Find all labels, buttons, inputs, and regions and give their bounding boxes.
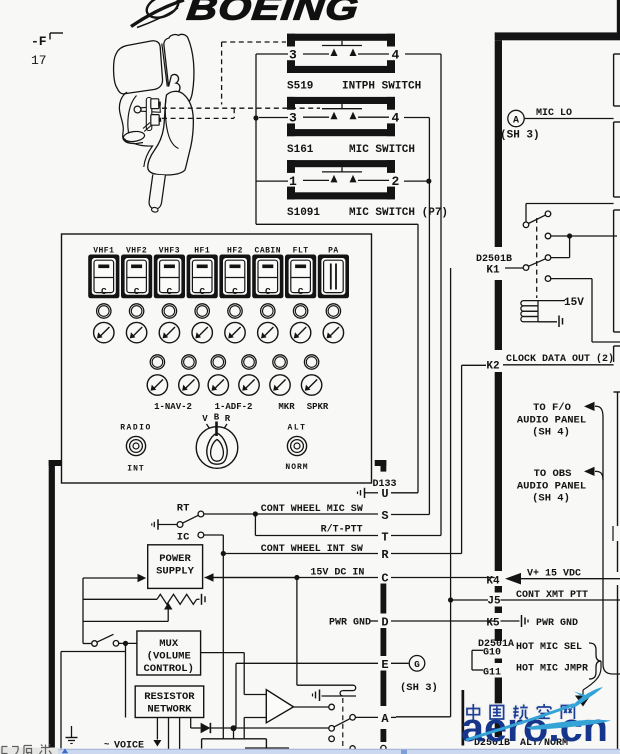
- svg-text:HF2: HF2: [227, 247, 243, 256]
- svg-text:HOT MIC JMPR: HOT MIC JMPR: [516, 664, 588, 675]
- svg-text:3: 3: [289, 48, 297, 63]
- svg-text:D2501B: D2501B: [476, 254, 512, 265]
- svg-text:MUX: MUX: [159, 638, 179, 650]
- svg-text:1-NAV-2: 1-NAV-2: [154, 402, 192, 412]
- svg-text:U: U: [381, 487, 388, 501]
- svg-text:B: B: [214, 413, 220, 423]
- svg-text:POWER: POWER: [159, 553, 191, 565]
- svg-text:S161: S161: [287, 144, 314, 156]
- svg-text:CONT WHEEL MIC SW: CONT WHEEL MIC SW: [261, 504, 363, 515]
- svg-text:A: A: [513, 116, 519, 127]
- svg-text:NETWORK: NETWORK: [147, 704, 192, 716]
- svg-text:2: 2: [392, 174, 400, 189]
- svg-text:RESISTOR: RESISTOR: [144, 691, 195, 703]
- svg-text:IC: IC: [177, 532, 190, 544]
- svg-text:S519: S519: [287, 81, 313, 93]
- svg-text:C: C: [381, 572, 388, 586]
- svg-text:K2: K2: [486, 361, 499, 373]
- svg-text:G: G: [414, 659, 420, 670]
- svg-text:CABIN: CABIN: [255, 247, 282, 256]
- svg-text:(SH 3): (SH 3): [400, 682, 438, 694]
- svg-text:J5: J5: [487, 596, 501, 608]
- svg-text:A: A: [381, 712, 389, 726]
- svg-text:K5: K5: [486, 618, 500, 630]
- svg-text:(SH 3): (SH 3): [500, 130, 540, 142]
- svg-text:CONT WHEEL INT SW: CONT WHEEL INT SW: [261, 544, 363, 555]
- svg-text:NORM: NORM: [285, 463, 308, 472]
- svg-text:(VOLUME: (VOLUME: [147, 651, 191, 663]
- svg-text:4: 4: [392, 48, 400, 63]
- svg-text:VHF2: VHF2: [126, 247, 147, 256]
- svg-text:MIC SWITCH (P7): MIC SWITCH (P7): [349, 207, 448, 219]
- svg-text:RT: RT: [177, 503, 190, 515]
- svg-text:D: D: [381, 616, 388, 630]
- svg-text:CONT XMT PTT: CONT XMT PTT: [516, 590, 588, 601]
- svg-text:3: 3: [289, 111, 297, 126]
- svg-text:V+ 15 VDC: V+ 15 VDC: [527, 569, 581, 580]
- svg-text:TO OBS: TO OBS: [534, 468, 572, 480]
- svg-text:1-ADF-2: 1-ADF-2: [215, 402, 253, 412]
- svg-text:HOT MIC SEL: HOT MIC SEL: [516, 642, 582, 653]
- svg-text:E: E: [381, 658, 388, 672]
- svg-text:R/T-PTT: R/T-PTT: [321, 524, 363, 536]
- svg-text:R: R: [381, 548, 389, 562]
- svg-text:MKR: MKR: [278, 402, 295, 412]
- svg-text:1: 1: [289, 174, 297, 189]
- svg-text:15V: 15V: [564, 297, 584, 309]
- svg-text:SPKR: SPKR: [307, 402, 329, 412]
- svg-text:S1091: S1091: [287, 207, 320, 219]
- svg-text:HF1: HF1: [194, 247, 210, 256]
- svg-text:ALT: ALT: [288, 424, 307, 433]
- svg-text:C: C: [199, 286, 205, 297]
- svg-text:(SH 4): (SH 4): [532, 493, 570, 505]
- svg-text:15V DC IN: 15V DC IN: [310, 568, 364, 579]
- svg-text:AUDIO PANEL: AUDIO PANEL: [517, 415, 586, 427]
- svg-text:FLT: FLT: [293, 247, 309, 256]
- svg-text:G11: G11: [483, 668, 501, 679]
- svg-text:MIC SWITCH: MIC SWITCH: [349, 144, 415, 156]
- svg-text:INT: INT: [127, 465, 144, 474]
- svg-text:17: 17: [31, 53, 47, 68]
- svg-text:AUDIO PANEL: AUDIO PANEL: [517, 481, 586, 493]
- svg-text:C: C: [265, 286, 271, 297]
- svg-text:K1: K1: [486, 265, 500, 277]
- svg-text:PA: PA: [328, 247, 339, 256]
- svg-text:D2501A: D2501A: [478, 639, 514, 650]
- svg-text:R: R: [225, 414, 231, 424]
- svg-text:T: T: [381, 531, 388, 545]
- svg-text:C: C: [232, 286, 238, 297]
- svg-text:S: S: [381, 509, 388, 523]
- svg-text:C: C: [101, 286, 107, 297]
- svg-text:RADIO: RADIO: [120, 424, 152, 433]
- svg-text:SUPPLY: SUPPLY: [156, 566, 195, 578]
- svg-text:CLOCK DATA OUT (2): CLOCK DATA OUT (2): [506, 353, 614, 365]
- svg-text:CONTROL): CONTROL): [143, 663, 193, 675]
- svg-text:-F: -F: [31, 34, 47, 49]
- svg-text:BOEING: BOEING: [185, 0, 361, 27]
- svg-text:VHF1: VHF1: [93, 247, 114, 256]
- svg-text:(SH 4): (SH 4): [532, 427, 570, 439]
- svg-text:~: ~: [104, 740, 109, 750]
- svg-text:C: C: [134, 286, 140, 297]
- svg-text:C: C: [298, 286, 304, 297]
- svg-text:MIC LO: MIC LO: [536, 108, 572, 119]
- svg-text:TO F/O: TO F/O: [533, 402, 571, 414]
- svg-text:V: V: [202, 414, 208, 424]
- svg-text:C: C: [167, 286, 173, 297]
- svg-text:PWR GND: PWR GND: [536, 618, 578, 629]
- svg-text:PWR GND: PWR GND: [329, 618, 371, 629]
- svg-text:INTPH SWITCH: INTPH SWITCH: [342, 81, 421, 93]
- svg-text:VHF3: VHF3: [159, 247, 180, 256]
- svg-text:4: 4: [392, 111, 400, 126]
